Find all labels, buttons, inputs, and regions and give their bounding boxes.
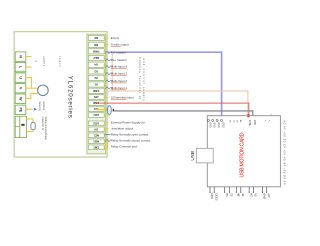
pin GND of VFD (88, 88, 104, 93)
pin 10V of VFD (88, 95, 104, 100)
terminal W of power connector J1 (15, 94, 26, 103)
svg-text:X2: X2 (94, 76, 98, 80)
board bottom pin YS (252, 187, 254, 192)
svg-text:X4: X4 (94, 63, 98, 67)
board top pin GND at x=221.5 (221, 119, 223, 121)
svg-text:AO AF +5V ZD ZP +5V HD HP +5V: AO AF +5V ZD ZP +5V HD HP +5V SD SP (282, 121, 285, 185)
wire: stub pin NC1 (104, 134, 108, 137)
svg-text:COM+: COM+ (248, 120, 250, 127)
terminal PE of power connector J1 (15, 105, 26, 114)
wire: stub pin OV (104, 128, 108, 131)
crimp symbol on pin X4 (106, 66, 111, 68)
svg-text:NC: NC (94, 36, 98, 40)
svg-text:Y-: Y- (264, 120, 266, 122)
svg-text:Connector for: Connector for (41, 117, 44, 131)
svg-text:External Power Supply for: External Power Supply for (111, 121, 145, 125)
pin X3 of VFD (88, 69, 104, 74)
board bottom pin 4A (240, 187, 242, 192)
svg-text:GND: GND (217, 122, 220, 128)
control terminal strip container (87, 34, 106, 154)
svg-text:and Control supply: and Control supply (142, 59, 146, 102)
svg-text:GND: GND (222, 122, 225, 128)
svg-text:Multi-Input 3: Multi-Input 3 (111, 72, 128, 76)
potentiometer knob circle (38, 85, 49, 96)
board top pin GND at x=212.7 (212, 119, 214, 121)
crimp symbol on pin X2 (106, 80, 111, 82)
svg-text:For rotation: For rotation (111, 50, 126, 54)
motor setting connector J2 (15, 116, 26, 137)
wire: stub pin AO2 (104, 122, 108, 125)
wire: stub pin X1 (104, 85, 106, 88)
pin CM1 of VFD (88, 145, 104, 150)
red pad at COM+ (247, 114, 249, 117)
wire: blue stub pin NC1 (104, 134, 110, 136)
wire: red GND to motion card COM+ (97, 103, 249, 119)
board bottom pin HS (224, 187, 226, 192)
wire: stub pin NO1 (104, 140, 108, 143)
wire: stub pin NO (104, 44, 108, 46)
crimp symbol on pin REV (106, 59, 111, 61)
pin GND of VFD (88, 101, 104, 106)
svg-text:1X10: 1X10 (210, 193, 213, 199)
terminal L of power connector J1 (15, 62, 26, 71)
svg-text:Multi-Input 4: Multi-Input 4 (111, 65, 128, 69)
svg-text:REV: REV (93, 56, 99, 60)
crimp symbol on pin X3 (106, 73, 111, 75)
svg-text:Input: Input (58, 56, 61, 66)
svg-text:Multi-Input 2: Multi-Input 2 (111, 79, 128, 83)
wire: stub pin FWD (104, 51, 106, 52)
svg-text:NO1: NO1 (93, 139, 99, 143)
pin NO1 of VFD (88, 139, 104, 144)
pin X2 of VFD (88, 75, 104, 80)
board bottom pin 1X10 (209, 187, 211, 192)
board bottom pin 4B (235, 187, 237, 192)
crimp symbol on pin FWD (106, 51, 111, 53)
svg-text:10V: 10V (94, 95, 99, 99)
svg-text:HS: HS (249, 193, 252, 197)
stray dot (271, 114, 272, 115)
board bottom pin HS (248, 187, 250, 192)
svg-text:Trestle output: Trestle output (111, 43, 129, 47)
svg-text:L: L (19, 66, 23, 68)
svg-text:FWD: FWD (93, 49, 99, 53)
crimp symbol on pin NO1 (106, 139, 111, 141)
svg-text:OV: OV (94, 127, 98, 131)
svg-text:1X100: 1X100 (214, 193, 217, 201)
wire: gray AI1 to motion card GND (114, 111, 252, 119)
wire: AO1 elbow to bead bottom (104, 113, 109, 116)
svg-text:CM1: CM1 (93, 145, 99, 149)
motion card board outline (207, 116, 280, 187)
terminal V of power connector J1 (15, 84, 26, 93)
svg-text:GND: GND (208, 122, 211, 128)
wire: stub pin X2 (104, 78, 106, 81)
svg-text:Setting motor(optional): Setting motor(optional) (44, 117, 47, 140)
wire: terminal V to potentiometer (26, 87, 38, 89)
fuse F1 component (31, 122, 35, 129)
wire: stub pin 10V (104, 96, 108, 99)
wire: terminal W to potentiometer (26, 94, 38, 99)
junction mark (113, 109, 115, 112)
wire: stub from terminal L (26, 66, 32, 68)
svg-text:terminal: terminal (42, 102, 45, 111)
thick yellow arrow into filter bead (97, 109, 106, 111)
pin NC of VFD (88, 35, 104, 40)
svg-text:USB: USB (190, 151, 195, 161)
pin REV of VFD (88, 55, 104, 60)
svg-text:YS: YS (254, 193, 257, 197)
svg-text:YL620series: YL620series (67, 76, 74, 118)
wire: terminal U to potentiometer (26, 78, 32, 89)
wire: stub pin REV (104, 58, 106, 60)
VFD block U1 outline (14, 32, 107, 157)
svg-text:AO1: AO1 (93, 113, 99, 117)
pin NC1 of VFD (88, 133, 104, 138)
svg-text:4B: 4B (236, 193, 239, 196)
svg-text:AO2: AO2 (93, 121, 99, 125)
svg-text:400Hz: 400Hz (42, 56, 45, 67)
board bottom pin 1X100 (213, 187, 215, 192)
wire: stub pin X4 (104, 65, 106, 67)
wire: loop through fuse F1 (27, 119, 34, 132)
svg-text:Multi-Input 1: Multi-Input 1 (111, 86, 128, 90)
svg-text:GND: GND (213, 122, 216, 128)
pin AO1 of VFD (88, 113, 104, 118)
terminal N of power connector J1 (15, 52, 26, 61)
wire: stub pin X3 (104, 71, 106, 73)
wire: stub from terminal N (26, 56, 32, 58)
svg-text:GND: GND (263, 193, 266, 199)
board top pin GND at x=217.1 (216, 119, 218, 121)
svg-text:NC1: NC1 (93, 133, 99, 137)
svg-text:GND: GND (253, 120, 255, 125)
pin OV of VFD (88, 127, 104, 132)
svg-text:Common Terminal of: Common Terminal of (138, 57, 142, 99)
pin NO of VFD (88, 42, 104, 47)
wire: stub pin NC (104, 37, 108, 39)
crimp symbol on pin X1 (106, 87, 111, 89)
board bottom pin ZS (228, 187, 230, 192)
svg-text:15Vterminal input: 15Vterminal input (111, 96, 134, 100)
pin AI1 of VFD (88, 107, 104, 112)
wire: blue FWD to motion card pin (107, 52, 222, 118)
USB connector (196, 148, 213, 163)
svg-text:Relay Normally open contact: Relay Normally open contact (111, 133, 149, 137)
board top pin GND at x=208.3 (207, 119, 209, 121)
svg-text:PE: PE (19, 108, 23, 113)
filter bead L1 (108, 106, 112, 115)
svg-text:X3: X3 (94, 69, 98, 73)
terminal U of power connector J1 (15, 73, 26, 82)
pin AO2 of VFD (88, 121, 104, 126)
svg-text:ZS: ZS (229, 193, 232, 197)
board bottom pin +5V (266, 187, 268, 192)
pin FWD of VFD (88, 49, 104, 54)
svg-text:+5V: +5V (267, 193, 270, 198)
svg-text:4A: 4A (241, 193, 244, 196)
svg-text:-insulation output: -insulation output (111, 127, 134, 131)
svg-text:Relay Common end: Relay Common end (111, 145, 137, 149)
pin X1 of VFD (88, 82, 104, 87)
svg-text:Relay Normally closed contact: Relay Normally closed contact (111, 139, 151, 143)
wire: stub pin CM1 (104, 142, 107, 148)
svg-text:Rev rotation: Rev rotation (111, 58, 127, 62)
svg-text:HS: HS (225, 193, 228, 197)
wire: tan X1 to motion card COM+ (104, 53, 248, 119)
wire: terminal PE to ground arrow (26, 108, 33, 110)
svg-text:GND: GND (93, 89, 99, 93)
svg-text:Grounds: Grounds (38, 102, 41, 112)
svg-text:USB MOTION CARD: USB MOTION CARD (240, 132, 246, 177)
svg-text:X1: X1 (94, 83, 98, 87)
board bottom pin GND (262, 187, 264, 192)
ground arrow symbol (34, 108, 37, 111)
svg-text:Empty: Empty (111, 36, 120, 40)
pin X4 of VFD (88, 62, 104, 67)
